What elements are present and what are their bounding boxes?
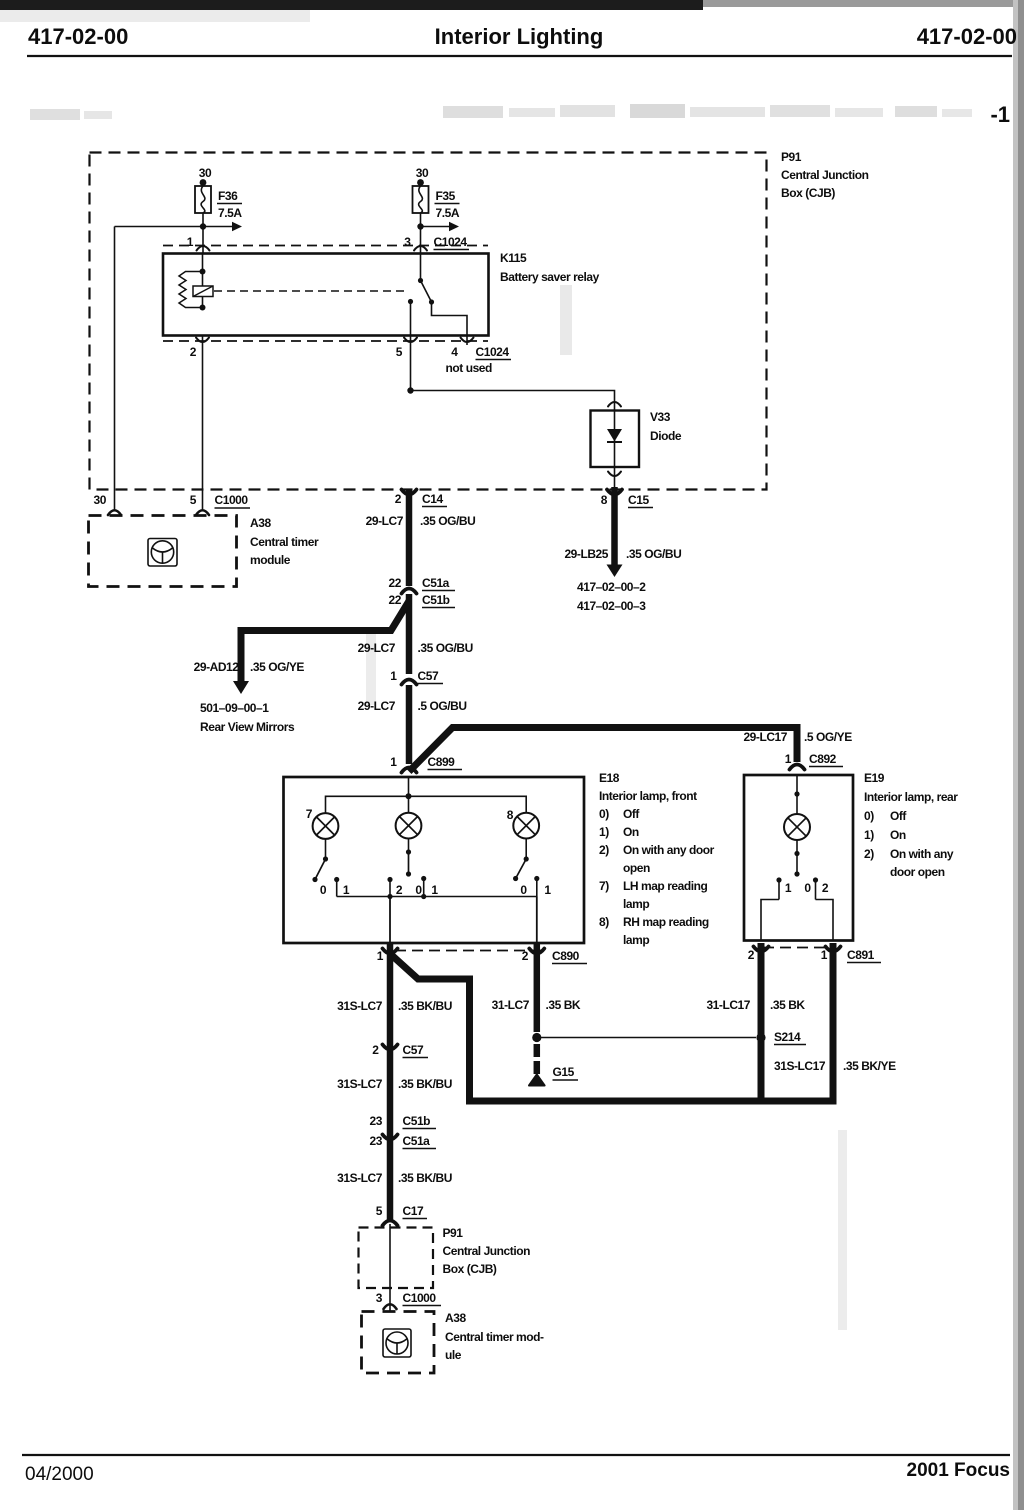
fuse F36 bbox=[195, 186, 211, 213]
fuse F36 label 7.5A bbox=[217, 189, 242, 220]
A38 label bbox=[250, 516, 319, 567]
A38 central timer module dashed box (bottom) bbox=[362, 1312, 435, 1374]
svg-text:23: 23 bbox=[370, 1114, 383, 1128]
svg-text:LH map reading: LH map reading bbox=[623, 879, 707, 893]
svg-text:K115: K115 bbox=[500, 251, 527, 265]
E18 internal bus bbox=[326, 793, 527, 813]
svg-text:Central timer: Central timer bbox=[250, 535, 319, 549]
pin 2 K115 bbox=[190, 338, 209, 360]
node 30 (F35 feed) bbox=[416, 166, 429, 186]
E19 entry wire bbox=[794, 775, 799, 814]
svg-text:.35 OG/BU: .35 OG/BU bbox=[420, 514, 475, 528]
switch center position labels 2 0 1 bbox=[396, 883, 439, 897]
svg-text:30: 30 bbox=[94, 493, 107, 507]
wire relay pin 5 down bbox=[410, 302, 412, 391]
pin 8 connector C15 bbox=[601, 490, 653, 508]
svg-text:.5 OG/YE: .5 OG/YE bbox=[804, 730, 852, 744]
wire E19 pin2 through S214 bbox=[758, 943, 765, 1101]
svg-text:22: 22 bbox=[389, 576, 402, 590]
svg-text:C51a: C51a bbox=[422, 576, 450, 590]
svg-text:31-LC7: 31-LC7 bbox=[492, 998, 530, 1012]
svg-text:C1024: C1024 bbox=[476, 345, 510, 359]
svg-text:8: 8 bbox=[507, 808, 514, 822]
svg-text:Central Junction: Central Junction bbox=[781, 168, 869, 182]
svg-text:.35 OG/YE: .35 OG/YE bbox=[250, 660, 304, 674]
svg-text:Central timer mod-: Central timer mod- bbox=[445, 1330, 544, 1344]
A38 central timer module dashed box bbox=[89, 516, 237, 587]
svg-text:Central Junction: Central Junction bbox=[443, 1244, 531, 1258]
svg-text:A38: A38 bbox=[445, 1311, 466, 1325]
V33 label bbox=[650, 410, 682, 443]
svg-text:31S-LC7: 31S-LC7 bbox=[337, 1171, 383, 1185]
svg-text:Interior Lighting: Interior Lighting bbox=[435, 24, 604, 49]
svg-text:lamp: lamp bbox=[623, 933, 649, 947]
svg-text:1): 1) bbox=[864, 828, 874, 842]
svg-text:C892: C892 bbox=[809, 752, 837, 766]
wire junction to V33 bbox=[411, 391, 615, 411]
pin 3 K115 and connector C1024 label bbox=[404, 235, 469, 251]
svg-text:2001 Focus: 2001 Focus bbox=[907, 1460, 1011, 1481]
wire 31S-LC7 E18 pin1 down bbox=[387, 943, 394, 1220]
wire 29-LC7 C51b to C57 bbox=[406, 594, 413, 674]
svg-text:1: 1 bbox=[785, 881, 792, 895]
switch 7 position labels 0 1 bbox=[320, 883, 350, 897]
wire 29-LC7 C14 to C51a bbox=[406, 489, 413, 586]
E19 switch position labels 1 0 2 bbox=[785, 881, 829, 895]
svg-text:1: 1 bbox=[390, 669, 397, 683]
interior lamp rear E19 box bbox=[744, 775, 853, 941]
svg-text:On: On bbox=[623, 825, 639, 839]
wire label 29-LC7 .35 OG/BU (above C57) bbox=[358, 641, 473, 655]
svg-text:Battery saver relay: Battery saver relay bbox=[500, 270, 600, 284]
svg-text:29-LC7: 29-LC7 bbox=[358, 641, 396, 655]
svg-text:C891: C891 bbox=[847, 948, 875, 962]
pin 2 connector C891 bbox=[748, 947, 769, 963]
wire C17 through CJB bbox=[389, 1224, 391, 1312]
pin 1 connector C899 bbox=[390, 755, 462, 773]
svg-text:1: 1 bbox=[785, 752, 792, 766]
pin 23 connector C51b bbox=[370, 1114, 436, 1129]
pin 1 connector C890 bbox=[377, 949, 398, 964]
switch 8 position labels 0 1 bbox=[520, 883, 551, 897]
svg-text:.35 BK/BU: .35 BK/BU bbox=[398, 1077, 452, 1091]
svg-text:5: 5 bbox=[190, 493, 197, 507]
E18 output bus bbox=[337, 896, 537, 898]
svg-text:29-AD12: 29-AD12 bbox=[194, 660, 240, 674]
E19 label and legend bbox=[864, 771, 958, 879]
svg-text:On with any: On with any bbox=[890, 847, 954, 861]
junction below F35 bbox=[417, 223, 423, 229]
svg-text:1: 1 bbox=[187, 235, 194, 249]
svg-text:3: 3 bbox=[404, 235, 411, 249]
svg-text:0: 0 bbox=[520, 883, 527, 897]
svg-text:417-02-00: 417-02-00 bbox=[917, 24, 1017, 49]
svg-text:1: 1 bbox=[390, 755, 397, 769]
P91 label bbox=[781, 150, 869, 200]
wire label 31S-LC7 .35 BK/BU (top) bbox=[337, 999, 452, 1013]
svg-text:29-LB25: 29-LB25 bbox=[564, 547, 608, 561]
svg-text:V33: V33 bbox=[650, 410, 671, 424]
svg-text:C14: C14 bbox=[422, 492, 443, 506]
wire E19 pin1 to ground run bbox=[830, 943, 837, 1105]
svg-text:C1024: C1024 bbox=[434, 235, 468, 249]
svg-text:1): 1) bbox=[599, 825, 609, 839]
svg-text:module: module bbox=[250, 553, 291, 567]
svg-text:.35 BK/BU: .35 BK/BU bbox=[398, 1171, 452, 1185]
svg-text:29-LC7: 29-LC7 bbox=[366, 514, 404, 528]
svg-text:F36: F36 bbox=[218, 189, 238, 203]
pin 2 connector C14 bbox=[395, 490, 447, 507]
svg-text:.35 BK: .35 BK bbox=[546, 998, 581, 1012]
svg-text:.35 OG/BU: .35 OG/BU bbox=[418, 641, 473, 655]
lamp 7 (LH map reading) bbox=[306, 807, 339, 839]
svg-text:open: open bbox=[623, 861, 650, 875]
svg-text:Off: Off bbox=[890, 809, 907, 823]
lamp center (interior) bbox=[396, 796, 422, 838]
svg-text:C899: C899 bbox=[428, 755, 456, 769]
wire label 31S-LC17 .35 BK/YE bbox=[774, 1059, 896, 1073]
V33 bottom pin bbox=[608, 467, 621, 487]
wire label 29-LC17 .5 OG/YE bbox=[743, 730, 852, 744]
node 30 (F36 feed) bbox=[199, 166, 212, 186]
svg-text:C890: C890 bbox=[552, 949, 580, 963]
svg-text:417–02–00–3: 417–02–00–3 bbox=[577, 599, 646, 613]
junction on pin5 wire bbox=[407, 387, 413, 393]
connector C891 dashed line bbox=[763, 947, 834, 949]
fuse F35 label 7.5A bbox=[435, 189, 460, 220]
svg-text:not used: not used bbox=[446, 361, 493, 375]
svg-text:1: 1 bbox=[343, 883, 350, 897]
svg-text:2: 2 bbox=[748, 948, 755, 962]
A38 label (bottom) bbox=[445, 1311, 544, 1362]
wire E18 pin2 to G15 bbox=[534, 943, 541, 1032]
E18 drop to pin 2 bbox=[536, 897, 538, 944]
wire label 31S-LC7 .35 BK/BU (bottom) bbox=[337, 1171, 452, 1185]
destination refs 417-02-00-2 / 417-02-00-3 bbox=[577, 580, 646, 613]
svg-text:2: 2 bbox=[522, 949, 529, 963]
interior lamp front E18 box bbox=[284, 777, 585, 943]
svg-text:2: 2 bbox=[396, 883, 403, 897]
svg-text:417–02–00–2: 417–02–00–2 bbox=[577, 580, 646, 594]
branch wire 29-AD12 to rear view mirrors bbox=[233, 601, 409, 694]
svg-text:0: 0 bbox=[804, 881, 811, 895]
A38 steering wheel icon bbox=[148, 539, 177, 567]
svg-text:E18: E18 bbox=[599, 771, 620, 785]
svg-text:0): 0) bbox=[864, 809, 874, 823]
switch for lamp 7 bbox=[312, 839, 339, 897]
svg-text:E19: E19 bbox=[864, 771, 885, 785]
svg-text:Box (CJB): Box (CJB) bbox=[781, 186, 835, 200]
wire relay pin 2 to A38 pin 5 bbox=[202, 336, 204, 511]
svg-text:F35: F35 bbox=[436, 189, 456, 203]
svg-text:22: 22 bbox=[389, 593, 402, 607]
svg-text:On with any door: On with any door bbox=[623, 843, 715, 857]
E19 lamp bbox=[784, 814, 810, 840]
svg-text:4: 4 bbox=[451, 345, 458, 359]
wire F35 to relay pin 3 bbox=[420, 213, 422, 254]
wire label 29-LB25 .35 OG/BU bbox=[564, 547, 681, 561]
ground G15 bbox=[529, 1065, 578, 1086]
svg-text:04/2000: 04/2000 bbox=[25, 1464, 94, 1485]
pin 4 K115 not used bbox=[446, 336, 512, 376]
switch for center lamp bbox=[387, 839, 426, 900]
svg-text:7): 7) bbox=[599, 879, 609, 893]
svg-text:417-02-00: 417-02-00 bbox=[28, 24, 128, 49]
svg-text:C51b: C51b bbox=[403, 1114, 431, 1128]
wire label 29-LC7 .35 OG/BU bbox=[366, 514, 476, 528]
connector C1024 dashed line (top) bbox=[163, 245, 488, 247]
svg-text:.35 OG/BU: .35 OG/BU bbox=[626, 547, 681, 561]
svg-text:lamp: lamp bbox=[623, 897, 649, 911]
relay K115 box bbox=[163, 254, 489, 336]
svg-text:-1: -1 bbox=[990, 102, 1010, 127]
dashed wire to ground G15 bbox=[534, 1044, 541, 1079]
svg-text:29-LC17: 29-LC17 bbox=[743, 730, 787, 744]
svg-text:Interior lamp, rear: Interior lamp, rear bbox=[864, 790, 958, 804]
svg-text:.5 OG/BU: .5 OG/BU bbox=[418, 699, 467, 713]
fuse F35 bbox=[413, 186, 429, 213]
svg-text:C57: C57 bbox=[418, 669, 439, 683]
svg-text:29-LC7: 29-LC7 bbox=[358, 699, 396, 713]
svg-text:2: 2 bbox=[372, 1043, 379, 1057]
connector C890 dashed line bbox=[395, 950, 547, 952]
svg-text:8: 8 bbox=[601, 493, 608, 507]
svg-text:2: 2 bbox=[822, 881, 829, 895]
svg-text:C57: C57 bbox=[403, 1043, 424, 1057]
junction below F36 bbox=[200, 223, 206, 229]
pin 1 connector C891 bbox=[821, 947, 881, 963]
svg-text:.35 BK: .35 BK bbox=[770, 998, 805, 1012]
K115 label bbox=[500, 251, 600, 284]
svg-text:RH map reading: RH map reading bbox=[623, 915, 709, 929]
svg-text:30: 30 bbox=[416, 166, 429, 180]
E19 wire to pin 1 bbox=[816, 900, 834, 941]
svg-text:P91: P91 bbox=[443, 1226, 464, 1240]
svg-text:5: 5 bbox=[396, 345, 403, 359]
wire F36 to junction bbox=[202, 213, 204, 254]
svg-text:Interior lamp, front: Interior lamp, front bbox=[599, 789, 697, 803]
relay mechanical link (dashed) bbox=[214, 290, 406, 292]
svg-text:2): 2) bbox=[599, 843, 609, 857]
svg-text:C51a: C51a bbox=[403, 1134, 431, 1148]
svg-text:G15: G15 bbox=[553, 1065, 575, 1079]
splice junction on G15 wire bbox=[532, 1033, 541, 1042]
svg-text:2: 2 bbox=[190, 345, 197, 359]
svg-text:2): 2) bbox=[864, 847, 874, 861]
svg-text:31S-LC17: 31S-LC17 bbox=[774, 1059, 826, 1073]
wire 29-LC7 C57 to C899 bbox=[406, 685, 413, 764]
svg-text:3: 3 bbox=[376, 1291, 383, 1305]
relay coil bbox=[179, 254, 213, 311]
branch wire 29-LC17 to E19 bbox=[409, 728, 797, 772]
svg-text:1: 1 bbox=[431, 883, 438, 897]
ground run wire 31S-LC17 bbox=[466, 1098, 833, 1105]
CJB P91 dashed box bbox=[90, 153, 767, 490]
pin 3 connector C1000 bbox=[376, 1291, 441, 1309]
pin 5 A38 and connector C1000 label bbox=[190, 493, 250, 515]
pin 22 connector C51a bbox=[389, 576, 455, 594]
svg-text:On: On bbox=[890, 828, 906, 842]
svg-text:0): 0) bbox=[599, 807, 609, 821]
wire label 31S-LC7 .35 BK/BU (mid) bbox=[337, 1077, 452, 1091]
svg-text:5: 5 bbox=[376, 1204, 383, 1218]
svg-text:501–09–00–1: 501–09–00–1 bbox=[200, 701, 269, 715]
svg-text:23: 23 bbox=[370, 1134, 383, 1148]
svg-text:2: 2 bbox=[395, 492, 402, 506]
relay switch bbox=[408, 254, 467, 336]
wire label 31-LC7 .35 BK bbox=[492, 998, 581, 1012]
E18 label and legend bbox=[599, 771, 715, 947]
wire label 29-AD12 .35 OG/YE bbox=[194, 660, 305, 674]
destination ref 501-09-00-1 Rear View Mirrors bbox=[200, 701, 295, 734]
svg-text:Diode: Diode bbox=[650, 429, 682, 443]
svg-text:7.5A: 7.5A bbox=[436, 206, 460, 220]
svg-text:C15: C15 bbox=[628, 493, 649, 507]
svg-text:31-LC17: 31-LC17 bbox=[706, 998, 750, 1012]
wire label 31-LC17 .35 BK bbox=[706, 998, 805, 1012]
feed arrow from F35 junction bbox=[421, 222, 460, 231]
svg-text:S214: S214 bbox=[774, 1030, 801, 1044]
svg-text:31S-LC7: 31S-LC7 bbox=[337, 999, 383, 1013]
switch for lamp 8 bbox=[513, 839, 539, 897]
wire label 29-LC7 .5 OG/BU bbox=[358, 699, 467, 713]
svg-text:.35 BK/BU: .35 BK/BU bbox=[398, 999, 452, 1013]
V33 top pin bbox=[608, 402, 621, 407]
svg-text:31S-LC7: 31S-LC7 bbox=[337, 1077, 383, 1091]
svg-text:C17: C17 bbox=[403, 1204, 424, 1218]
pin 5 connector C17 bbox=[376, 1204, 427, 1226]
pin 1 connector C892 bbox=[785, 752, 843, 770]
svg-text:7: 7 bbox=[306, 807, 313, 821]
connector C1024 dashed line (bottom) bbox=[163, 340, 488, 342]
pin 22 connector C51b bbox=[389, 593, 455, 608]
splice link wire S214 bbox=[541, 1037, 756, 1039]
wire 29-LB25 bbox=[607, 487, 623, 577]
pin 30 A38 bbox=[94, 493, 121, 515]
E19 lamp switch bbox=[776, 840, 818, 900]
E19 wire to pin 2 bbox=[761, 900, 779, 941]
svg-text:30: 30 bbox=[199, 166, 212, 180]
feed arrow from F36 junction bbox=[203, 222, 242, 231]
diode V33 bbox=[591, 411, 640, 468]
CJB P91 dashed box (bottom) bbox=[359, 1228, 434, 1289]
svg-text:7.5A: 7.5A bbox=[218, 206, 242, 220]
svg-text:.35 BK/YE: .35 BK/YE bbox=[843, 1059, 896, 1073]
svg-text:Box (CJB): Box (CJB) bbox=[443, 1262, 497, 1276]
branch wire E18 pin1 to ground run bbox=[392, 955, 470, 1101]
E18 entry wire bbox=[408, 777, 410, 796]
A38 steering wheel icon (bottom) bbox=[383, 1329, 411, 1357]
svg-text:1: 1 bbox=[544, 883, 551, 897]
E18 drop to pin 1 bbox=[387, 894, 392, 943]
svg-text:C51b: C51b bbox=[422, 593, 450, 607]
svg-text:ule: ule bbox=[445, 1348, 462, 1362]
pin 2 connector C890 bbox=[522, 949, 587, 964]
svg-text:C1000: C1000 bbox=[215, 493, 249, 507]
pin 23 connector C51a bbox=[370, 1134, 436, 1149]
pin 1 K115 bbox=[187, 235, 210, 251]
svg-text:C1000: C1000 bbox=[403, 1291, 437, 1305]
svg-text:0: 0 bbox=[415, 883, 422, 897]
svg-text:0: 0 bbox=[320, 883, 327, 897]
svg-text:8): 8) bbox=[599, 915, 609, 929]
P91 label (bottom) bbox=[443, 1226, 531, 1276]
svg-text:Off: Off bbox=[623, 807, 640, 821]
pin 5 K115 bbox=[396, 338, 417, 360]
pin 2 connector C57 bbox=[372, 1043, 428, 1058]
pin 1 connector C57 bbox=[390, 669, 443, 685]
lamp 8 (RH map reading) bbox=[507, 808, 539, 838]
svg-text:A38: A38 bbox=[250, 516, 271, 530]
svg-text:P91: P91 bbox=[781, 150, 802, 164]
svg-text:door open: door open bbox=[890, 865, 945, 879]
splice S214 bbox=[756, 1030, 806, 1045]
wire junction to A38 pin 30 bbox=[115, 227, 204, 511]
svg-text:Rear View Mirrors: Rear View Mirrors bbox=[200, 720, 295, 734]
